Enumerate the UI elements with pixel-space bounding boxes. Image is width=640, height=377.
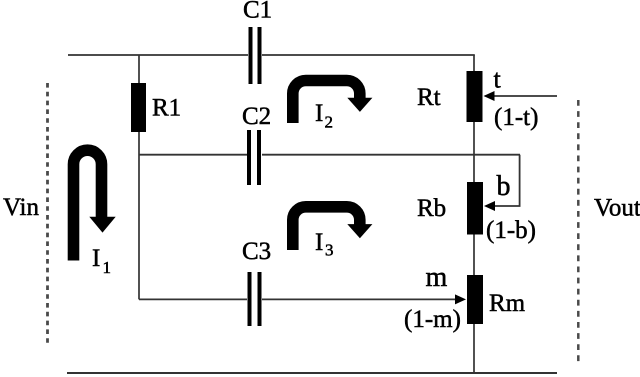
current loop I1 <box>74 150 116 260</box>
svg-text:Rb: Rb <box>417 195 446 222</box>
arrowhead into Rb wiper <box>484 201 495 211</box>
wire: left branch vertical <box>138 55 140 299</box>
dashed line: Vout port <box>577 100 580 362</box>
svg-text:3: 3 <box>325 241 334 260</box>
label I1 <box>92 245 111 277</box>
svg-text:C3: C3 <box>242 238 271 265</box>
resistor Rb <box>467 182 483 235</box>
svg-text:2: 2 <box>325 113 334 132</box>
svg-text:Rt: Rt <box>417 84 441 111</box>
svg-text:(1-t): (1-t) <box>494 104 538 131</box>
svg-text:C2: C2 <box>242 103 271 130</box>
svg-text:C1: C1 <box>243 0 272 24</box>
wire: top rail right segment <box>262 54 475 56</box>
resistor R1 <box>131 83 146 132</box>
svg-text:(1-b): (1-b) <box>486 217 536 244</box>
wire: middle rail right segment <box>262 154 520 156</box>
capacitor C3 <box>248 272 262 326</box>
wire: top rail left segment <box>68 54 248 56</box>
svg-text:t: t <box>494 65 502 94</box>
svg-text:m: m <box>426 262 448 293</box>
capacitor C2 <box>247 130 261 185</box>
svg-text:I: I <box>315 229 323 256</box>
svg-text:b: b <box>497 171 511 202</box>
svg-text:Rm: Rm <box>489 290 526 317</box>
svg-text:(1-m): (1-m) <box>404 306 461 333</box>
current loop I2 <box>293 81 373 124</box>
wire: right vertical bus <box>473 55 475 373</box>
wire: m rail left segment <box>139 298 247 300</box>
wire: b tap <box>493 155 520 206</box>
resistor Rt <box>467 71 483 122</box>
arrowhead into Rt wiper <box>484 91 495 101</box>
svg-text:Vin: Vin <box>3 194 39 221</box>
label I3 <box>315 229 334 260</box>
dashed line: Vin port <box>46 83 49 346</box>
capacitor C1 <box>249 27 262 84</box>
label I2 <box>315 100 333 132</box>
svg-text:1: 1 <box>103 258 112 277</box>
wire: bottom rail <box>67 372 557 374</box>
resistor Rm <box>467 275 483 324</box>
svg-text:Vout: Vout <box>594 195 640 222</box>
svg-text:R1: R1 <box>152 95 181 122</box>
arrowhead into Rm wiper <box>455 294 466 304</box>
svg-text:I: I <box>92 245 100 272</box>
current loop I3 <box>293 207 373 250</box>
wire: m rail right segment <box>262 298 457 300</box>
wire: t tap <box>492 95 557 97</box>
wire: middle rail left segment <box>139 154 247 156</box>
svg-text:I: I <box>315 100 323 127</box>
